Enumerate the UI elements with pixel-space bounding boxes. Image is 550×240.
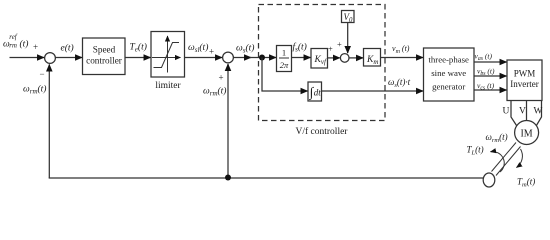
svg-text:+: + — [328, 43, 333, 53]
summing junction S2 — [223, 52, 234, 63]
wire: phase U from inverter to motor — [511, 101, 518, 128]
block: integrator — [308, 82, 322, 101]
label and arrow: motor torque T_m(t) — [517, 149, 536, 189]
svg-text:U: U — [503, 107, 510, 117]
summing junction S1 — [45, 53, 56, 64]
block: 1/(2pi) gain — [277, 46, 292, 72]
svg-text:+: + — [209, 47, 214, 57]
svg-text:ωs(t): ωs(t) — [236, 43, 254, 55]
svg-text:W: W — [534, 107, 543, 117]
svg-text:rm: rm — [9, 43, 17, 50]
labels: phase names U V W — [503, 107, 543, 117]
wire: Kvf output into summer 3 — [328, 43, 340, 58]
svg-text:(t): (t) — [20, 39, 29, 50]
wire: torque command T_e(t) to limiter — [125, 41, 151, 57]
svg-text:controller: controller — [86, 55, 122, 65]
wire: phase W from inverter to motor — [536, 101, 542, 128]
shaft: motor shaft to speed sensor — [492, 143, 521, 176]
wire: branch down to integrator — [262, 58, 308, 92]
svg-text:1: 1 — [282, 48, 286, 58]
block: boost voltage V0 — [342, 11, 355, 24]
svg-text:sine wave: sine wave — [431, 68, 466, 78]
node: feedback branch junction — [225, 175, 231, 181]
svg-text:PWM: PWM — [514, 68, 536, 78]
sensor: speed sensor on shaft — [483, 173, 495, 187]
svg-text:Speed: Speed — [93, 45, 116, 55]
label: rotor speed w_rm(t) at shaft — [486, 132, 508, 144]
block: gain Km — [364, 49, 381, 67]
wire: measured speed w_rm(t) up into summer 2 — [203, 64, 228, 178]
wire: modulation voltage v_m(t) to sine wave generator — [381, 44, 424, 58]
block: gain Kvf — [311, 49, 328, 69]
wire: slip speed w_sl(t) from limiter to summer 2 — [185, 42, 223, 58]
block: limiter (saturation) — [151, 32, 185, 92]
svg-text:V: V — [519, 107, 526, 117]
svg-text:+: + — [337, 39, 342, 49]
wire: V0 down into summer 3 — [337, 23, 348, 54]
wire: v_bs(t) to PWM inverter — [474, 67, 507, 78]
wire: feedback up into summer 1 — [23, 65, 49, 179]
node: reference speed input label w_rm_ref(t) — [3, 34, 38, 52]
svg-text:+: + — [33, 42, 38, 52]
minus sign at S1 feedback input — [40, 69, 45, 79]
svg-text:fs(t): fs(t) — [293, 41, 307, 53]
wire: phase V from inverter to motor — [526, 101, 528, 122]
svg-text:ref: ref — [9, 34, 17, 41]
wire: error e(t) from S1 to speed controller — [55, 43, 82, 58]
svg-text:e(t): e(t) — [61, 43, 74, 54]
svg-text:Inverter: Inverter — [510, 79, 538, 89]
block: PWM inverter — [507, 60, 542, 101]
wire: v_cs(t) to PWM inverter — [474, 81, 507, 92]
dashed box: V/f controller boundary — [259, 5, 386, 137]
wire: frequency f_s(t) from 1/2pi to Kvf — [292, 41, 311, 57]
block: speed controller — [83, 38, 126, 75]
wire: reference input into summer 1 — [10, 57, 45, 59]
wire: v_as(t) to PWM inverter — [474, 52, 507, 63]
svg-text:Te(t): Te(t) — [130, 41, 147, 53]
label and arc arrow: load torque T_L(t) — [467, 145, 505, 173]
wire: speed feedback bottom line — [49, 177, 483, 180]
svg-text:−: − — [40, 69, 45, 79]
svg-text:three-phase: three-phase — [428, 55, 469, 65]
svg-text:2π: 2π — [280, 60, 289, 70]
block: three-phase sine wave generator — [424, 48, 475, 101]
svg-text:+: + — [219, 73, 224, 83]
svg-text:V/f controller: V/f controller — [296, 126, 349, 137]
node: branch junction inside V/f controller — [259, 55, 265, 61]
wire: summer 3 output into Km — [349, 57, 363, 59]
wire: phase angle w_s(t)t to sine wave generator — [322, 77, 424, 91]
svg-text:generator: generator — [432, 82, 465, 92]
wire: synchronous speed w_s(t) from S2 into V/f controller — [233, 43, 276, 58]
svg-text:limiter: limiter — [155, 81, 181, 91]
motor: induction machine IM — [515, 121, 539, 145]
summing junction S3 — [340, 54, 349, 63]
svg-text:IM: IM — [520, 129, 532, 140]
